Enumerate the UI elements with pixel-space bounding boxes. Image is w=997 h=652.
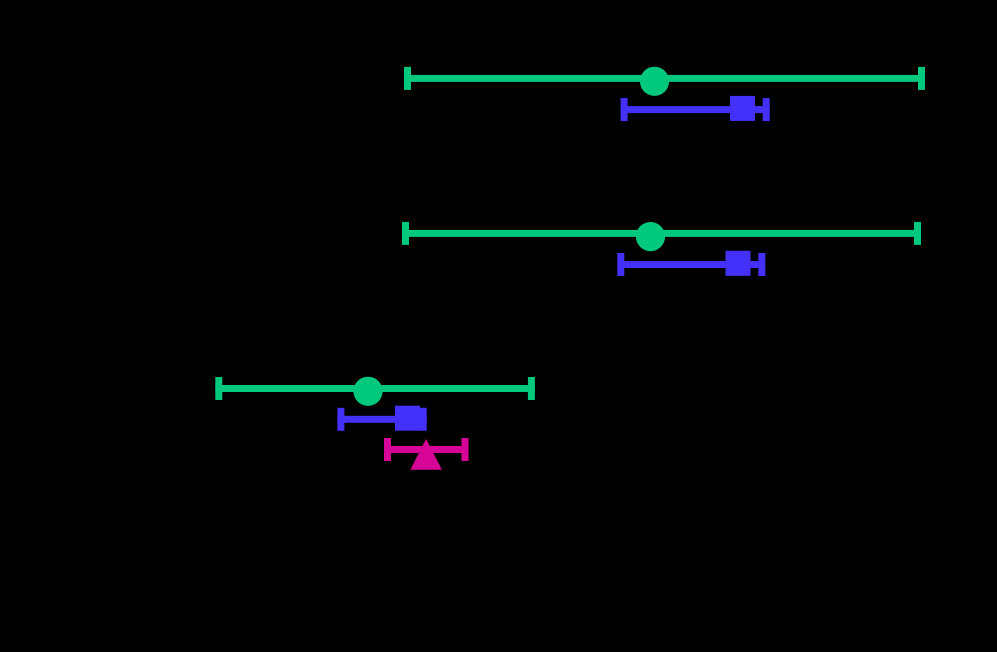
left cap B1 — [621, 98, 628, 121]
left cap A3 — [215, 377, 222, 400]
right cap A1 — [918, 67, 925, 90]
group 1 green error bar (series A, row 1) — [404, 67, 925, 96]
circle marker A3 — [353, 377, 382, 406]
error bar line A2 — [402, 230, 921, 237]
square marker B1 — [730, 96, 755, 121]
circle marker A1 — [640, 67, 669, 96]
right cap C3 — [462, 438, 469, 461]
left cap A2 — [402, 222, 409, 245]
group 3 green error bar (series A, row 3) — [215, 377, 535, 406]
error bar line C3 — [384, 446, 469, 453]
error bar line A1 — [404, 75, 925, 82]
error bar line B3 — [337, 416, 426, 423]
group 2 green error bar (series A, row 2) — [402, 222, 921, 251]
right cap B3 — [420, 408, 427, 431]
error bar line A3 — [215, 385, 535, 392]
error bar line B2 — [617, 261, 765, 268]
left cap B2 — [617, 253, 624, 276]
right cap A2 — [914, 222, 921, 245]
square marker B3 — [395, 406, 420, 431]
group 3 blue error bar (series B, row 3) — [337, 406, 426, 431]
square marker B2 — [726, 251, 751, 276]
error bar line B1 — [621, 106, 770, 113]
circle marker A2 — [636, 222, 665, 251]
left cap A1 — [404, 67, 411, 90]
left cap B3 — [337, 408, 344, 431]
right cap A3 — [528, 377, 535, 400]
group 3 magenta error bar (series C, row 3) — [384, 438, 469, 470]
group 1 blue error bar (series B, row 1) — [621, 96, 770, 121]
right cap B2 — [758, 253, 765, 276]
left cap C3 — [384, 438, 391, 461]
group 2 blue error bar (series B, row 2) — [617, 251, 765, 276]
triangle marker C3 — [410, 439, 442, 470]
right cap B1 — [763, 98, 770, 121]
